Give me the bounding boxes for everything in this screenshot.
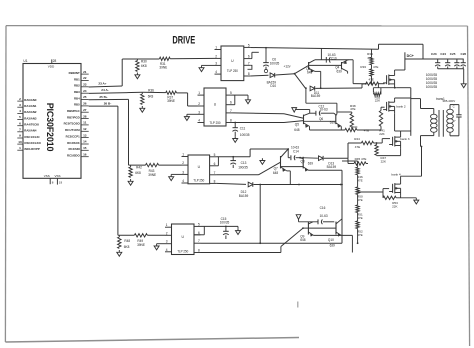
svg-text:6: 6	[198, 231, 200, 235]
svg-text:39NE: 39NE	[159, 65, 167, 69]
svg-text:6K8: 6K8	[124, 245, 130, 249]
svg-text:RB7/PGD: RB7/PGD	[67, 115, 80, 119]
svg-text:28: 28	[83, 114, 87, 118]
svg-text:28: 28	[53, 59, 57, 63]
svg-text:639: 639	[308, 162, 313, 166]
svg-text:bank 3: bank 3	[400, 137, 410, 141]
svg-text:C13: C13	[241, 161, 247, 165]
svg-text:8: 8	[52, 181, 54, 185]
svg-text:3: 3	[182, 170, 184, 174]
svg-text:47E: 47E	[373, 65, 378, 69]
svg-text:25: 25	[83, 95, 87, 99]
svg-text:3: 3	[19, 103, 21, 107]
svg-text:22K: 22K	[375, 99, 380, 103]
svg-text:1: 1	[166, 223, 168, 227]
svg-text:7: 7	[454, 119, 456, 123]
svg-text:19: 19	[59, 181, 63, 185]
svg-text:8: 8	[230, 119, 232, 123]
svg-text:1000/35: 1000/35	[426, 85, 438, 89]
svg-text:3: 3	[198, 110, 200, 114]
svg-text:2: 2	[182, 161, 184, 165]
svg-text:7: 7	[248, 61, 250, 65]
svg-text:22K: 22K	[392, 205, 397, 209]
svg-text:4: 4	[182, 179, 184, 183]
svg-text:TLP 250: TLP 250	[193, 178, 204, 182]
svg-text:RC3/SCK: RC3/SCK	[67, 141, 80, 145]
svg-text:10-63: 10-63	[291, 145, 299, 149]
svg-text:C23: C23	[431, 52, 437, 56]
svg-text:648: 648	[294, 128, 299, 132]
svg-text:DC+: DC+	[407, 54, 414, 58]
svg-text:OSC2/CLKO: OSC2/CLKO	[24, 141, 41, 145]
svg-text:RB2: RB2	[74, 83, 80, 87]
svg-text:RA2/AN2: RA2/AN2	[24, 110, 36, 114]
svg-text:4: 4	[215, 70, 217, 74]
svg-text:47E: 47E	[350, 107, 355, 111]
svg-text:7: 7	[230, 109, 232, 113]
svg-text:639: 639	[336, 69, 341, 73]
svg-text:639: 639	[330, 243, 335, 247]
svg-text:8: 8	[198, 249, 200, 253]
svg-text:7: 7	[19, 128, 21, 132]
svg-text:100/35: 100/35	[240, 133, 250, 137]
svg-text:47E: 47E	[355, 145, 360, 149]
svg-text:RA5/AN4: RA5/AN4	[24, 128, 36, 132]
svg-text:100/35: 100/35	[238, 166, 248, 170]
svg-text:22K: 22K	[379, 132, 384, 136]
svg-text:RC4/SDI: RC4/SDI	[68, 147, 79, 151]
svg-text:RB4: RB4	[74, 96, 80, 100]
svg-text:4: 4	[198, 119, 200, 123]
svg-text:BA159: BA159	[239, 194, 249, 198]
svg-text:4: 4	[19, 109, 21, 113]
svg-text:VDD: VDD	[48, 65, 55, 69]
svg-text:OSC1/CLKI: OSC1/CLKI	[24, 135, 39, 139]
svg-text:RC5/SDO: RC5/SDO	[67, 153, 80, 157]
svg-text:1: 1	[182, 153, 184, 157]
svg-text:DRIVE: DRIVE	[172, 33, 195, 46]
svg-text:648: 648	[273, 171, 278, 175]
svg-text:6K8: 6K8	[135, 171, 141, 175]
svg-text:RC0/T1OSO: RC0/T1OSO	[64, 122, 81, 126]
svg-text:Q6: Q6	[319, 117, 323, 121]
svg-text:14: 14	[83, 140, 87, 144]
svg-text:RC1/T1OSI: RC1/T1OSI	[65, 128, 80, 132]
svg-text:BA159: BA159	[311, 94, 321, 98]
svg-text:16: 16	[83, 152, 87, 156]
svg-text:RB3: RB3	[74, 90, 80, 94]
svg-text:10-63: 10-63	[320, 108, 328, 112]
svg-text:R42: R42	[136, 166, 142, 170]
svg-text:39NE: 39NE	[148, 173, 156, 177]
svg-text:D10: D10	[270, 84, 276, 88]
svg-text:385-400V: 385-400V	[442, 99, 455, 103]
svg-text:39NE: 39NE	[137, 243, 145, 247]
svg-text:26: 26	[83, 102, 87, 106]
svg-text:C25: C25	[450, 52, 456, 56]
svg-text:5: 5	[214, 153, 216, 157]
svg-text:RA1/AN1: RA1/AN1	[24, 104, 36, 108]
svg-text:RA0/AN0: RA0/AN0	[24, 98, 36, 102]
svg-text:TLP 250: TLP 250	[209, 121, 220, 125]
svg-text:U: U	[231, 59, 234, 63]
svg-text:RA3/AN3: RA3/AN3	[24, 116, 36, 120]
svg-text:1: 1	[215, 46, 217, 50]
svg-text:RB5: RB5	[74, 103, 80, 107]
svg-text:15: 15	[83, 146, 87, 150]
svg-text:R33: R33	[360, 65, 366, 69]
svg-text:Q7: Q7	[274, 167, 278, 171]
svg-text:TLP 250: TLP 250	[177, 249, 188, 253]
svg-text:Q10: Q10	[328, 238, 334, 242]
svg-text:648: 648	[300, 238, 305, 242]
svg-text:+12v: +12v	[284, 64, 291, 68]
svg-text:1: 1	[19, 146, 21, 150]
svg-text:6K8: 6K8	[148, 95, 154, 99]
svg-text:C16: C16	[320, 206, 326, 210]
svg-text:RB0/INT: RB0/INT	[69, 71, 80, 75]
svg-text:5: 5	[248, 43, 250, 47]
svg-text:R45 47E: R45 47E	[355, 157, 367, 161]
svg-text:R30: R30	[141, 59, 147, 63]
svg-text:PIC30F2010: PIC30F2010	[45, 103, 55, 152]
svg-text:22: 22	[83, 76, 87, 80]
svg-text:23: 23	[83, 83, 87, 87]
svg-text:C24: C24	[440, 52, 446, 56]
svg-text:RB1: RB1	[74, 77, 80, 81]
svg-text:24 A-: 24 A-	[101, 88, 108, 92]
svg-text:8: 8	[248, 72, 250, 76]
svg-text:9: 9	[19, 134, 21, 138]
svg-text:5: 5	[19, 115, 21, 119]
svg-text:27: 27	[83, 108, 87, 112]
svg-text:3: 3	[215, 61, 217, 65]
svg-text:6: 6	[230, 101, 232, 105]
svg-text:BA159: BA159	[327, 165, 337, 169]
svg-text:Q8: Q8	[300, 160, 304, 164]
svg-text:23 A+: 23 A+	[98, 82, 106, 86]
svg-text:bank 2: bank 2	[396, 104, 406, 108]
svg-text:22K: 22K	[381, 160, 386, 164]
svg-text:100/35: 100/35	[270, 62, 280, 66]
svg-text:25 B+: 25 B+	[99, 95, 108, 99]
svg-text:3: 3	[166, 240, 168, 244]
svg-text:7: 7	[214, 171, 216, 175]
svg-text:RB6/PGC: RB6/PGC	[67, 109, 80, 113]
svg-text:12: 12	[83, 127, 87, 131]
svg-text:VSS: VSS	[54, 174, 60, 178]
svg-text:C10: C10	[331, 56, 337, 60]
svg-text:R48: R48	[124, 239, 130, 243]
svg-text:RC2/CCP1: RC2/CCP1	[66, 134, 80, 138]
svg-text:2: 2	[215, 54, 217, 58]
svg-text:2: 2	[166, 231, 168, 235]
svg-text:639: 639	[330, 121, 335, 125]
svg-text:47E: 47E	[364, 129, 369, 133]
svg-text:C: C	[453, 105, 455, 109]
svg-text:R40: R40	[352, 125, 358, 129]
svg-text:24: 24	[83, 89, 87, 93]
svg-text:8: 8	[214, 179, 216, 183]
svg-text:21: 21	[83, 70, 87, 74]
svg-text:47E: 47E	[368, 78, 373, 82]
svg-text:U: U	[182, 235, 185, 239]
svg-text:5: 5	[230, 91, 232, 95]
svg-text:RA4/T0CKI: RA4/T0CKI	[24, 122, 39, 126]
svg-text:2: 2	[198, 102, 200, 106]
svg-text:TLP 250: TLP 250	[227, 69, 238, 73]
svg-text:2: 2	[19, 97, 21, 101]
svg-text:11: 11	[83, 121, 87, 125]
svg-text:39NE: 39NE	[167, 99, 175, 103]
svg-text:4: 4	[166, 248, 168, 252]
svg-text:100/35: 100/35	[220, 221, 230, 225]
svg-text:U1: U1	[23, 59, 27, 63]
svg-text:bank 4: bank 4	[391, 173, 401, 177]
svg-text:5: 5	[198, 222, 200, 226]
svg-text:C26: C26	[461, 52, 467, 56]
svg-text:C11: C11	[240, 126, 246, 130]
svg-text:26 B-: 26 B-	[104, 102, 112, 106]
svg-text:/MCLR/VPP: /MCLR/VPP	[24, 147, 39, 151]
svg-text:6: 6	[248, 55, 250, 59]
svg-text:648: 648	[307, 71, 312, 75]
svg-text:C14: C14	[293, 150, 299, 154]
svg-text:6K8: 6K8	[141, 64, 147, 68]
svg-text:1: 1	[198, 91, 200, 95]
svg-text:13: 13	[83, 133, 87, 137]
svg-text:R44: R44	[354, 137, 360, 141]
svg-text:7: 7	[198, 239, 200, 243]
svg-text:VSS: VSS	[44, 174, 50, 178]
svg-text:6: 6	[214, 162, 216, 166]
svg-text:R36: R36	[148, 88, 154, 92]
svg-text:U: U	[198, 165, 201, 169]
svg-text:Q5: Q5	[295, 122, 299, 126]
svg-text:U: U	[214, 103, 217, 107]
svg-text:10: 10	[18, 140, 22, 144]
svg-text:10-63: 10-63	[320, 214, 328, 218]
svg-text:47E: 47E	[367, 56, 372, 60]
svg-text:6: 6	[19, 121, 21, 125]
